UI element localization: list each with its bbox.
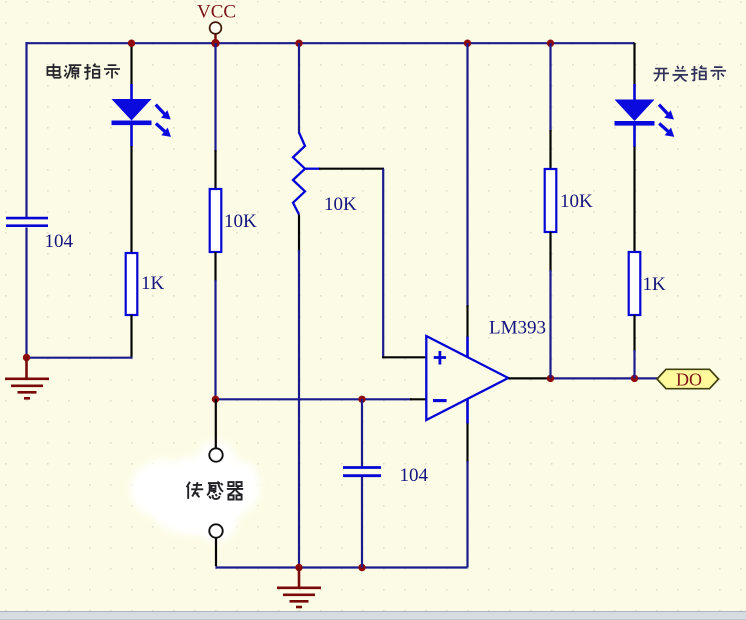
resistor 1K (right) (629, 252, 641, 315)
resistor 10K (right) (545, 169, 557, 232)
wire R 1K right bottom pin (633, 315, 635, 378)
ground symbol (bottom) (277, 568, 321, 608)
resistor 1K (left) (126, 253, 138, 315)
LED D1 (power indicator) (112, 84, 172, 147)
bottom window edge bar (0, 612, 746, 620)
junction minus net at capacitor 104 (358, 396, 365, 403)
svg-text:10K: 10K (560, 191, 593, 212)
wire op-amp output (509, 377, 553, 379)
label 开关指示 (switch indicator) (653, 66, 726, 82)
junction top rail at op-amp supply (464, 40, 471, 47)
resistor 10K (middle) (210, 189, 222, 252)
sensor body blob (130, 441, 260, 542)
wire R 10K right bottom pin (549, 232, 551, 378)
junction output at R 10K right (547, 375, 554, 382)
wire left rail down to capacitor (25, 42, 27, 218)
LED D2 (switch indicator) (615, 84, 675, 147)
wire LED2 to R 1K right (633, 147, 635, 253)
wire minus input net (216, 398, 413, 400)
wire capacitor 104 top pin (361, 399, 363, 467)
svg-text:LM393: LM393 (489, 318, 546, 339)
ground symbol (left) (5, 358, 49, 399)
junction minus net at sensor branch (212, 396, 219, 403)
svg-text:10K: 10K (324, 194, 357, 215)
wire sensor bottom pin to ground rail (216, 538, 218, 568)
junction top rail at VCC (211, 39, 219, 47)
wire R 1K to ground rail (27, 315, 133, 358)
junction top rail at LED1 (128, 40, 135, 47)
svg-text:DO: DO (676, 370, 702, 390)
wire potentiometer top pin (298, 43, 300, 134)
svg-text:104: 104 (400, 465, 429, 486)
wire sensor top pin (215, 399, 217, 449)
wire LED2 top pin (633, 43, 634, 85)
wire R 10K right top pin (549, 43, 551, 169)
wire left rail below capacitor (25, 228, 27, 358)
capacitor 104 (left) (6, 218, 48, 226)
svg-text:10K: 10K (224, 211, 257, 232)
label 电源指示 (power indicator) (47, 64, 120, 80)
sensor terminal top (209, 448, 222, 461)
svg-text:104: 104 (45, 231, 74, 252)
wire op-amp supply line (466, 43, 468, 568)
svg-text:VCC: VCC (197, 2, 236, 23)
wire VCC to R 10K middle (214, 43, 216, 152)
wire LED1 to R 1K (130, 146, 132, 253)
junction top rail at potentiometer (295, 40, 302, 47)
op-amp U1 LM393 (426, 336, 508, 424)
wire R 10K middle to minus node (214, 252, 216, 282)
wire bottom ground rail (216, 566, 468, 568)
wire potentiometer bottom to ground rail (298, 215, 300, 568)
port DO tag (657, 369, 719, 388)
junction top rail at R 10K right (547, 40, 554, 47)
capacitor 104 (bottom) (343, 468, 381, 476)
junction output at R 1K right (631, 375, 638, 382)
power port VCC symbol (210, 22, 222, 43)
svg-text:1K: 1K (141, 273, 165, 294)
junction ground rail at capacitor 104 (358, 564, 365, 571)
sensor terminal bottom (209, 524, 222, 537)
wire LED1 top pin (130, 43, 132, 85)
potentiometer 10K (293, 133, 320, 215)
wire potentiometer wiper to op-amp plus input (319, 169, 427, 358)
junction ground rail at potentiometer (295, 564, 302, 571)
wire top rail VCC (27, 42, 635, 44)
wire capacitor 104 bottom pin (361, 477, 363, 568)
label 传感器 (sensor) (187, 481, 244, 499)
junction left ground (23, 354, 30, 361)
svg-text:1K: 1K (643, 274, 667, 295)
